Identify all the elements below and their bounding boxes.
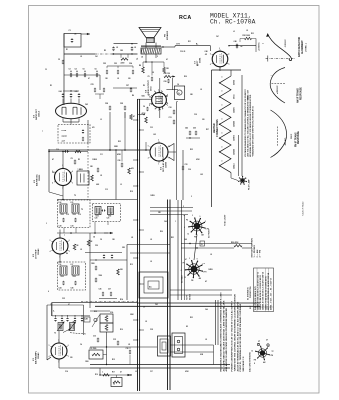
svg-text:C6: C6: [143, 106, 145, 108]
svg-text:C18: C18: [66, 214, 69, 216]
svg-text:82: 82: [91, 241, 93, 243]
svg-text:GANG: GANG: [62, 135, 68, 138]
svg-text:12BA6: 12BA6: [233, 121, 236, 127]
svg-text:AND ABOVE 1E ARE IN MMF UNLESS: AND ABOVE 1E ARE IN MMF UNLESS OTHERWISE…: [225, 308, 228, 372]
svg-text:C1: C1: [69, 30, 71, 32]
svg-text:C19: C19: [71, 226, 74, 228]
svg-text:SEE PAGE 7-8: SEE PAGE 7-8: [242, 356, 245, 372]
svg-text:R13: R13: [112, 359, 115, 361]
svg-text:C26: C26: [118, 160, 121, 162]
svg-text:.05: .05: [98, 213, 100, 215]
svg-text:C11: C11: [100, 154, 103, 156]
svg-text:C31: C31: [169, 117, 172, 119]
svg-text:RESISTANCE VALUES ARE IN OHMS: RESISTANCE VALUES ARE IN OHMS UNLESS OTH…: [220, 292, 223, 372]
svg-text:L15: L15: [71, 202, 74, 204]
svg-text:C37: C37: [150, 371, 153, 373]
svg-text:12: 12: [187, 233, 189, 235]
svg-text:R25: R25: [190, 149, 193, 151]
svg-text:6: 6: [48, 291, 49, 293]
svg-text:C15: C15: [113, 339, 116, 341]
svg-text:C40: C40: [234, 40, 237, 43]
svg-text:R33: R33: [251, 33, 254, 35]
svg-text:C26: C26: [164, 81, 167, 83]
svg-text:-100 KC: -100 KC: [285, 39, 287, 48]
svg-text:6: 6: [181, 270, 182, 272]
svg-text:.05: .05: [145, 321, 147, 323]
svg-text:.01: .01: [120, 184, 122, 186]
svg-text:.02: .02: [200, 89, 202, 91]
svg-text:n: n: [263, 43, 265, 44]
svg-text:68: 68: [77, 245, 79, 247]
svg-text:.005: .005: [153, 134, 156, 136]
svg-text:TUNED WITH THE CONTROL SHAFT A: TUNED WITH THE CONTROL SHAFT AT EXTREME …: [234, 294, 237, 372]
svg-text:AM IF TRANS: AM IF TRANS: [297, 88, 300, 103]
svg-text:.05: .05: [131, 237, 133, 239]
svg-text:.1: .1: [102, 372, 103, 374]
svg-text:L16: L16: [59, 264, 62, 266]
svg-text:.05: .05: [100, 175, 102, 177]
svg-text:C35: C35: [62, 298, 65, 300]
svg-text:S1 REAR: S1 REAR: [181, 275, 184, 283]
svg-text:TO AC LIGHT: TO AC LIGHT: [224, 214, 227, 226]
svg-text:C23: C23: [114, 63, 117, 65]
svg-text:73: 73: [54, 333, 56, 335]
svg-text:3: 3: [192, 215, 193, 217]
svg-text:S: S: [254, 363, 255, 365]
svg-text:13: 13: [201, 244, 203, 246]
svg-text:C16: C16: [56, 149, 59, 151]
svg-text:C5: C5: [83, 69, 85, 71]
svg-text:220: 220: [120, 269, 123, 271]
svg-text:R9: R9: [143, 85, 145, 87]
svg-text:.01: .01: [143, 307, 145, 309]
svg-text:1500: 1500: [73, 276, 76, 278]
svg-text:C6: C6: [95, 69, 97, 71]
svg-text:L5: L5: [58, 324, 60, 326]
svg-text:C16: C16: [65, 371, 68, 373]
svg-text:R30 120: R30 120: [164, 73, 170, 75]
svg-text:C28: C28: [105, 103, 108, 105]
svg-text:-300 KC-: -300 KC-: [285, 137, 287, 146]
svg-text:.05: .05: [205, 54, 207, 56]
svg-text:C38: C38: [126, 348, 129, 350]
svg-text:C2: C2: [58, 59, 60, 61]
svg-text:DIAL CORD STRINGING: DIAL CORD STRINGING: [249, 351, 252, 372]
svg-text:Ch. RC-1070A: Ch. RC-1070A: [210, 18, 256, 25]
svg-text:RESPONSE: RESPONSE: [300, 87, 302, 100]
svg-text:R18: R18: [130, 191, 133, 193]
svg-text:* MEASURED WITH 20000 OHM PER: * MEASURED WITH 20000 OHM PER VOLT METER…: [251, 106, 254, 157]
svg-text:T3: T3: [81, 209, 83, 211]
svg-text:.02: .02: [210, 254, 212, 256]
svg-text:C8: C8: [100, 239, 102, 241]
svg-text:.05: .05: [117, 78, 119, 80]
svg-text:LINE VOLTAGE 117V AC. VOLUME C: LINE VOLTAGE 117V AC. VOLUME CONTROL AT …: [246, 95, 249, 157]
svg-text:R16: R16: [120, 329, 123, 331]
svg-text:12AL5: 12AL5: [38, 110, 41, 117]
svg-text:MOTOR: MOTOR: [190, 293, 192, 300]
svg-text:S2: S2: [186, 326, 188, 328]
svg-text:.005: .005: [200, 174, 203, 176]
svg-text:C13: C13: [93, 336, 96, 338]
svg-text:.02: .02: [152, 72, 154, 74]
svg-text:C30: C30: [169, 107, 172, 109]
svg-text:.05: .05: [80, 249, 82, 251]
svg-text:3: 3: [189, 258, 190, 260]
svg-text:NO SIGNAL INPUT. ALL DC VOLTAG: NO SIGNAL INPUT. ALL DC VOLTAGES UNLESS …: [249, 94, 252, 157]
svg-text:.05: .05: [74, 34, 76, 36]
svg-text:16: 16: [177, 84, 179, 86]
svg-text:.05: .05: [246, 30, 248, 32]
svg-text:L17: L17: [71, 264, 74, 266]
svg-text:R2: R2: [104, 50, 106, 52]
svg-text:R23: R23: [190, 317, 193, 319]
svg-text:C19: C19: [78, 214, 81, 216]
svg-text:12AV6: 12AV6: [165, 161, 168, 168]
svg-text:35W4 -- 0 117 -- 117 -- .05: 35W4 -- 0 117 -- 117 -- .05 -- 0 117 V7: [269, 278, 272, 310]
svg-text:.05: .05: [240, 46, 242, 48]
svg-text:R17: R17: [112, 372, 115, 374]
svg-text:C29: C29: [120, 103, 123, 105]
svg-text:220: 220: [128, 78, 131, 80]
svg-text:PU: PU: [186, 220, 188, 222]
svg-text:±300 KC: ±300 KC: [277, 85, 279, 94]
svg-text:R32 1000: R32 1000: [243, 35, 250, 37]
svg-text:12BE6: 12BE6: [234, 135, 236, 141]
svg-text:ALIGNMENT: ALIGNMENT: [301, 40, 304, 54]
svg-text:C3: C3: [69, 69, 71, 71]
svg-text:L9: L9: [52, 172, 54, 174]
svg-text:2T: 2T: [266, 340, 268, 342]
svg-text:2 — AM: 2 — AM: [256, 250, 259, 258]
svg-text:12BE6: 12BE6: [39, 174, 41, 181]
svg-text:12BA6 .8 0 100 40 100 1.4 .05: 12BA6 .8 0 100 40 100 1.4 .05 47K 0 100 …: [261, 272, 264, 310]
svg-text:.05: .05: [128, 344, 130, 346]
svg-text:2200: 2200: [121, 63, 125, 65]
svg-text:C9: C9: [71, 158, 73, 160]
svg-text:1 — PHONO: 1 — PHONO: [254, 245, 256, 258]
svg-text:PILOT LAMP: PILOT LAMP: [248, 179, 251, 190]
svg-text:R6: R6: [132, 95, 134, 97]
svg-text:6: 6: [184, 215, 186, 216]
svg-text:C40: C40: [205, 50, 208, 53]
svg-text:9: 9: [199, 216, 200, 218]
svg-text:C39: C39: [150, 329, 153, 331]
svg-text:1500: 1500: [96, 216, 99, 218]
svg-text:12: 12: [184, 277, 186, 279]
svg-text:35W4: 35W4: [199, 57, 202, 63]
svg-text:C38: C38: [194, 114, 197, 116]
svg-text:RCA: RCA: [179, 15, 192, 21]
svg-text:C50: C50: [95, 245, 98, 247]
svg-text:12AV6: 12AV6: [233, 107, 236, 113]
svg-text:R22: R22: [118, 141, 121, 143]
svg-text:PHONO POS.: PHONO POS.: [250, 286, 252, 298]
svg-text:R29: R29: [184, 76, 187, 78]
svg-text:POINT S1, TERMINALS AT 88-108: POINT S1, TERMINALS AT 88-108 MC FOR FM …: [239, 303, 242, 371]
svg-text:12: 12: [251, 350, 253, 352]
svg-text:FM IF TRANS: FM IF TRANS: [294, 132, 297, 147]
svg-text:R12: R12: [130, 264, 133, 266]
svg-text:220: 220: [70, 357, 73, 359]
svg-text:R15: R15: [94, 311, 97, 313]
svg-text:.01: .01: [135, 371, 137, 373]
svg-text:C12: C12: [105, 189, 108, 191]
svg-text:R26: R26: [160, 231, 163, 233]
svg-text:1500: 1500: [61, 276, 64, 278]
svg-text:50C5: 50C5: [234, 94, 236, 99]
svg-text:RATIO DETECTOR: RATIO DETECTOR: [298, 36, 301, 57]
svg-text:C2: C2: [45, 69, 47, 71]
svg-text:1500: 1500: [108, 216, 111, 218]
svg-text:PU: PU: [183, 262, 185, 264]
svg-text:FM IF: FM IF: [291, 133, 293, 139]
svg-text:©John F. Rider: ©John F. Rider: [302, 201, 305, 216]
svg-text:R19: R19: [95, 374, 98, 376]
svg-text:1 PH: 1 PH: [203, 271, 206, 273]
svg-text:1500: 1500: [61, 214, 64, 216]
svg-text:1500: 1500: [73, 214, 76, 216]
svg-text:B+: B+: [196, 44, 198, 46]
svg-text:.01: .01: [100, 119, 102, 121]
svg-text:R27: R27: [206, 129, 209, 131]
svg-text:C27: C27: [126, 85, 129, 87]
svg-text:C20: C20: [95, 218, 98, 220]
svg-text:150: 150: [166, 68, 169, 70]
svg-text:.05: .05: [205, 339, 207, 341]
svg-text:R21: R21: [171, 237, 174, 239]
svg-text:3 — FM: 3 — FM: [260, 250, 262, 258]
svg-text:C21: C21: [107, 218, 110, 220]
svg-text:.05: .05: [80, 56, 82, 58]
svg-text:.02: .02: [150, 261, 152, 263]
svg-text:12AL5: 12AL5: [233, 163, 236, 169]
svg-text:RESPONSE: RESPONSE: [298, 131, 300, 144]
svg-text:C35: C35: [71, 288, 74, 290]
svg-text:VOLTAGES MEASURED TO CHASSIS W: VOLTAGES MEASURED TO CHASSIS WITH CHANAL…: [244, 88, 247, 157]
svg-text:.02: .02: [141, 57, 143, 59]
svg-text:POWER CONSUMPTION 35 W. AT 117: POWER CONSUMPTION 35 W. AT 117 VOLTS 60 …: [231, 300, 234, 371]
svg-text:12BA6: 12BA6: [37, 248, 40, 255]
svg-text:C36: C36: [99, 289, 102, 291]
svg-text:1500: 1500: [99, 275, 103, 277]
svg-text:1 PH: 1 PH: [270, 355, 273, 357]
svg-text:R8: R8: [139, 65, 141, 67]
svg-text:26: 26: [73, 322, 75, 324]
svg-text:R3: R3: [50, 85, 52, 87]
svg-text:C32: C32: [150, 127, 153, 129]
svg-text:12BA6: 12BA6: [233, 149, 236, 155]
svg-text:3: 3: [204, 263, 206, 264]
svg-text:16: 16: [93, 237, 95, 239]
svg-text:C33: C33: [185, 164, 188, 166]
svg-text:C5: C5: [148, 76, 150, 78]
svg-text:1 MEG: 1 MEG: [92, 159, 98, 161]
svg-text:T2: T2: [74, 195, 76, 197]
svg-text:R1: R1: [66, 49, 68, 51]
svg-text:1500: 1500: [85, 361, 89, 363]
svg-text:220: 220: [202, 119, 205, 121]
svg-text:C37: C37: [108, 289, 111, 291]
svg-text:G: G: [178, 93, 180, 95]
svg-text:.05: .05: [116, 47, 118, 49]
svg-text:.05: .05: [150, 239, 152, 241]
svg-text:ALIGN AT TERMINALS AT 455 KC A: ALIGN AT TERMINALS AT 455 KC AND 10.7 MC…: [236, 301, 239, 371]
svg-text:C18: C18: [59, 226, 62, 228]
svg-text:C22: C22: [103, 63, 106, 65]
svg-text:L2: L2: [233, 31, 235, 33]
svg-text:ALL CAPACITANCE VALUES LESS TH: ALL CAPACITANCE VALUES LESS THAN 1 ARE I…: [222, 300, 225, 371]
svg-text:.05: .05: [134, 47, 136, 49]
svg-text:VOL: VOL: [110, 312, 113, 314]
svg-text:SWITCH POSITION: SWITCH POSITION: [252, 238, 254, 258]
svg-text:C25: C25: [91, 84, 94, 86]
svg-text:+100 KC: +100 KC: [259, 42, 261, 51]
svg-text:16: 16: [113, 384, 115, 386]
svg-text:SPEAKER: SPEAKER: [166, 30, 169, 40]
svg-text:R31: R31: [188, 41, 191, 43]
svg-text:12BA6: 12BA6: [37, 352, 40, 359]
svg-text:T5: T5: [137, 58, 139, 60]
svg-text:C39 .05: C39 .05: [180, 51, 185, 53]
svg-text:R5: R5: [78, 159, 80, 161]
svg-text:1 MEG: 1 MEG: [78, 169, 84, 171]
svg-text:CONNECTIONS: CONNECTIONS: [216, 119, 219, 137]
svg-text:7: 7: [64, 235, 65, 237]
svg-text:S1 FRONT: S1 FRONT: [209, 228, 211, 238]
svg-text:1500: 1500: [91, 263, 95, 265]
svg-text:TO PH: TO PH: [187, 294, 189, 300]
svg-text:220: 220: [193, 128, 196, 130]
svg-text:( TUNE- ): ( TUNE- ): [306, 43, 308, 52]
svg-text:R11 1500: R11 1500: [90, 348, 97, 350]
svg-text:3: 3: [157, 56, 158, 58]
